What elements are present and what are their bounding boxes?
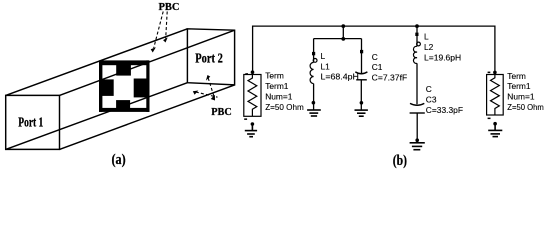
svg-text:C=7.37fF: C=7.37fF [372,73,408,83]
svg-text:Term1: Term1 [265,81,289,91]
svg-text:Port 1: Port 1 [18,115,43,130]
svg-text:C3: C3 [426,95,437,105]
svg-text:Z=50 Ohm: Z=50 Ohm [507,102,544,112]
svg-text:C1: C1 [372,62,383,72]
svg-text:Num=1: Num=1 [507,92,535,102]
svg-text:L: L [321,51,326,61]
svg-text:PBC: PBC [159,1,180,13]
svg-text:L2: L2 [424,42,434,52]
svg-text:C: C [426,84,432,94]
svg-text:L=19.6pH: L=19.6pH [424,52,461,62]
svg-text:(b): (b) [393,153,407,169]
svg-text:Num=1: Num=1 [265,91,293,101]
svg-text:Term: Term [507,71,526,81]
svg-text:C=33.3pF: C=33.3pF [426,105,463,115]
svg-text:L: L [424,32,429,42]
svg-text:Port 2: Port 2 [195,51,223,66]
svg-text:Term1: Term1 [507,81,531,91]
svg-text:L1: L1 [321,61,331,71]
svg-text:Term: Term [265,71,284,81]
svg-text:(a): (a) [112,152,126,168]
svg-text:Z=50 Ohm: Z=50 Ohm [265,102,304,112]
svg-text:PBC: PBC [211,106,232,118]
svg-text:C: C [372,52,378,62]
svg-text:L=68.4pH: L=68.4pH [321,72,359,82]
